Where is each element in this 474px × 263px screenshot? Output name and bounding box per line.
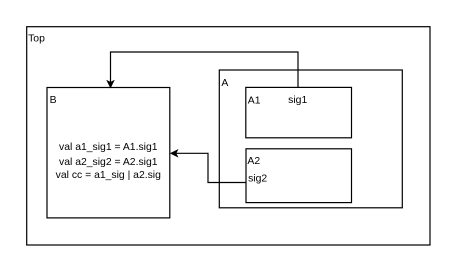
block A1 xyxy=(246,87,352,137)
wire sig2 to B xyxy=(176,153,246,182)
svg-text:val cc = a1_sig | a2.sig: val cc = a1_sig | a2.sig xyxy=(56,170,161,181)
svg-text:val a1_sig1 = A1.sig1: val a1_sig1 = A1.sig1 xyxy=(59,142,158,153)
block Top xyxy=(27,27,430,245)
block A xyxy=(219,70,402,208)
svg-text:Top: Top xyxy=(28,33,45,44)
arrowhead into B top xyxy=(107,81,114,88)
block B xyxy=(47,88,170,218)
svg-text:A1: A1 xyxy=(248,95,261,106)
svg-text:A2: A2 xyxy=(247,156,260,167)
wire sig1 to B xyxy=(111,52,299,87)
svg-text:val a2_sig2 = A2.sig1: val a2_sig2 = A2.sig1 xyxy=(59,157,158,168)
arrowhead into B right xyxy=(171,150,178,157)
svg-text:sig1: sig1 xyxy=(288,95,307,106)
svg-text:B: B xyxy=(50,95,57,106)
svg-text:A: A xyxy=(221,78,228,89)
block A2 xyxy=(246,149,352,203)
svg-text:sig2: sig2 xyxy=(248,174,267,185)
